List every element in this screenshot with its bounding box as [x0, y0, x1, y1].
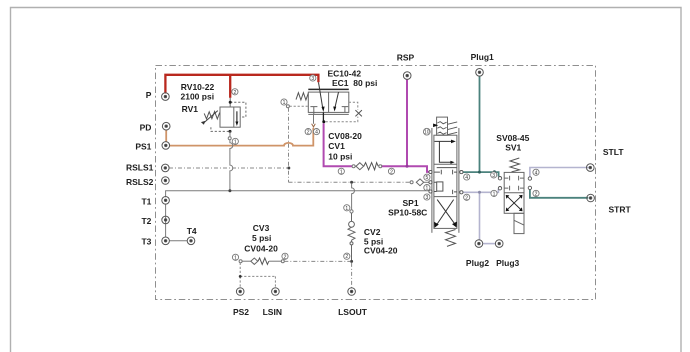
svg-text:10 psi: 10 psi: [328, 151, 352, 161]
port LSOUT: [348, 288, 356, 296]
svg-text:LSOUT: LSOUT: [338, 307, 368, 317]
EC1 port4 stub: [322, 112, 324, 121]
svg-text:EC10-42: EC10-42: [328, 68, 362, 78]
EC1 sleeve top line: [308, 88, 349, 90]
svg-text:PS1: PS1: [135, 142, 151, 152]
pin 2 SV1: [533, 190, 539, 197]
pin 1 CV1: [338, 168, 344, 175]
node CV2-LS junction: [350, 260, 353, 263]
svg-text:1: 1: [345, 206, 348, 212]
wire T1-T3 column: [165, 204, 167, 237]
svg-text:1: 1: [234, 139, 237, 145]
pin 1 SP1: [424, 185, 430, 192]
SP1 pilot box: [437, 117, 458, 135]
arrow RV1 adjust: [201, 121, 205, 125]
port T1: [162, 197, 170, 205]
port Plug2: [475, 240, 483, 248]
SP1 box3 X: [437, 200, 456, 225]
wire P pressure red net: [165, 75, 318, 98]
check valve CV3: [239, 258, 284, 264]
SP1 box2 internals: [434, 168, 457, 195]
svg-text:T4: T4: [187, 226, 197, 236]
wire STLT lavender: [530, 168, 589, 177]
svg-text:RSLS2: RSLS2: [126, 177, 154, 187]
svg-text:10: 10: [424, 130, 430, 136]
wire SP1 port2 lavender net: [463, 189, 499, 244]
svg-text:RV1: RV1: [182, 104, 199, 114]
svg-text:CV3: CV3: [253, 223, 270, 233]
arrow RV1 flow: [236, 111, 238, 122]
pin 10 SP1: [423, 128, 430, 135]
port Plug1: [476, 69, 484, 77]
svg-text:Plug3: Plug3: [496, 258, 519, 268]
svg-text:1: 1: [234, 255, 237, 261]
wire LSOUT vertical: [350, 184, 355, 213]
pin 2 RV1: [232, 89, 238, 96]
wire LS dash-dot line: [289, 181, 411, 183]
SP1 port circles: [429, 170, 463, 194]
svg-text:2: 2: [390, 169, 393, 175]
SV1 X arrows: [507, 197, 520, 210]
svg-text:P: P: [146, 90, 152, 100]
svg-text:SV1: SV1: [505, 142, 521, 152]
check valve CV2: [348, 213, 355, 260]
wire Plug1 teal net: [463, 76, 499, 177]
svg-text:1: 1: [340, 169, 343, 175]
svg-text:CV1: CV1: [328, 141, 345, 151]
schematic boundary box: [156, 66, 596, 300]
wire T3-T4: [169, 240, 187, 242]
pin 3 SP1: [424, 194, 430, 201]
node RV1 bottom junction: [229, 130, 232, 133]
svg-text:RV10-22: RV10-22: [181, 82, 215, 92]
port LSIN: [272, 288, 280, 296]
port T3: [162, 237, 170, 245]
svg-text:2: 2: [345, 254, 348, 260]
check valve CV1: [352, 163, 382, 170]
port RSLS1: [162, 164, 170, 172]
SV1 port circles: [498, 177, 531, 190]
pin 4 SP1: [464, 174, 470, 181]
node Plug1 junction: [478, 171, 481, 174]
EC1 port2 stub: [313, 114, 315, 123]
wire STRT teal: [530, 190, 588, 198]
svg-text:4: 4: [315, 130, 318, 136]
pin 1 RV1: [232, 138, 238, 145]
relief valve RV1: [203, 98, 246, 132]
pin 1 SV1: [491, 190, 497, 197]
svg-text:SP10-58C: SP10-58C: [388, 208, 427, 218]
svg-text:RSP: RSP: [397, 52, 415, 62]
svg-text:2: 2: [307, 130, 310, 136]
svg-text:2: 2: [535, 191, 538, 197]
port T4: [187, 237, 195, 245]
svg-text:CV04-20: CV04-20: [364, 246, 398, 256]
svg-text:5: 5: [426, 175, 429, 181]
wire RV1 drain: [228, 131, 233, 190]
node PS2 junction: [239, 275, 242, 278]
node SV1 teal bend dot: [493, 170, 496, 173]
svg-text:CV04-20: CV04-20: [244, 243, 278, 253]
node EC1 port4 junction: [322, 120, 325, 123]
wire PD-PS1 orange net: [166, 128, 313, 146]
pin 2 SP1: [464, 194, 470, 201]
svg-text:1: 1: [493, 191, 496, 197]
node tank-RV1 drain junction: [228, 189, 231, 192]
node RSP-CV1 junction: [406, 165, 409, 168]
node lavender junction: [478, 191, 481, 194]
port Plug3: [495, 240, 503, 248]
check ball into SP1 port1: [410, 181, 413, 184]
pin 3 EC1: [310, 75, 316, 82]
svg-text:RSLS1: RSLS1: [126, 163, 154, 173]
svg-text:4: 4: [535, 170, 538, 176]
svg-text:SP1: SP1: [403, 198, 419, 208]
SP1 box1 internals: [435, 141, 452, 162]
wire RSLS1 dash-dot: [169, 167, 288, 169]
node RV1 top junction: [229, 101, 232, 104]
svg-text:3: 3: [492, 173, 495, 179]
svg-text:1: 1: [426, 186, 429, 192]
svg-text:5 psi: 5 psi: [252, 233, 271, 243]
arrow EC1 right flow: [335, 92, 338, 107]
svg-text:Plug1: Plug1: [471, 52, 494, 62]
wire tank line: [166, 191, 430, 197]
svg-text:CV08-20: CV08-20: [328, 131, 362, 141]
wire PS2/LSIN dashed pilots: [240, 263, 275, 288]
svg-text:1: 1: [283, 100, 286, 106]
pin 4 SV1: [533, 169, 539, 176]
svg-text:EC1 80 psi: EC1 80 psi: [332, 78, 377, 88]
svg-text:T1: T1: [141, 197, 151, 207]
port STRT: [587, 194, 595, 202]
wire LSOUT drop dash-dot: [351, 263, 353, 288]
svg-text:T2: T2: [141, 216, 151, 226]
svg-text:STLT: STLT: [603, 147, 624, 157]
solenoid valve EC1: [290, 92, 362, 122]
arrow EC1 left flow: [319, 82, 323, 107]
pin 2 CV1: [388, 168, 394, 175]
svg-text:2100 psi: 2100 psi: [181, 92, 215, 102]
pin 3 SV1: [491, 172, 497, 179]
svg-text:2: 2: [465, 195, 468, 201]
EC1 pilot port1 circle: [286, 105, 289, 108]
svg-text:LSIN: LSIN: [263, 307, 282, 317]
wire EC1 pilot drain dash-dot: [288, 108, 290, 183]
pin 1 CV3: [232, 254, 238, 261]
pin 2 EC1: [305, 129, 311, 136]
svg-text:PD: PD: [140, 122, 152, 132]
svg-text:T3: T3: [141, 236, 151, 246]
wire CV3-LSOUT dash-dot: [284, 260, 350, 262]
spool valve SP1: [432, 128, 459, 233]
solenoid valve SV1: [504, 158, 524, 234]
pin 1 CV2: [344, 205, 350, 212]
port PS2: [236, 288, 244, 296]
port RSP: [403, 72, 411, 80]
svg-text:3: 3: [426, 195, 429, 201]
svg-text:STRT: STRT: [609, 205, 632, 215]
port P: [162, 93, 170, 101]
port PD: [162, 122, 170, 130]
svg-text:Plug2: Plug2: [466, 258, 489, 268]
pin 2 CV2: [344, 253, 350, 260]
SP1 bottom spring: [446, 230, 456, 247]
pin 5 SP1: [424, 174, 430, 181]
port RSLS2: [162, 177, 170, 185]
port PS1: [162, 142, 170, 150]
pin 2 CV3: [282, 253, 288, 260]
wire RSP magenta pilot net: [324, 79, 430, 172]
svg-text:PS2: PS2: [233, 307, 249, 317]
pin 1 EC1: [281, 99, 287, 106]
pin 4 EC1: [313, 129, 319, 136]
svg-text:2: 2: [234, 90, 237, 96]
node LS-LSOUT junction: [350, 181, 353, 184]
node RSLS1 junction: [287, 167, 290, 170]
svg-text:2: 2: [284, 254, 287, 260]
port STLT: [587, 164, 595, 172]
port T2: [162, 216, 170, 224]
arrow SP1 pilot: [433, 124, 438, 128]
svg-text:4: 4: [465, 175, 468, 181]
svg-text:3: 3: [311, 76, 314, 82]
